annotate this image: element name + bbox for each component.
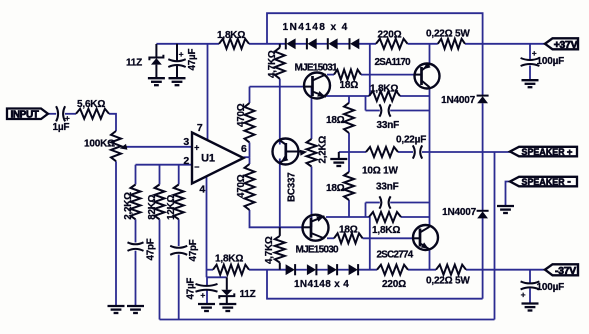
resistor R8 470R lower [245,164,255,210]
wire zobel line [339,151,366,153]
wire +37 100uF stub bottom [529,65,531,79]
svg-text:2,2KΩ: 2,2KΩ [317,136,328,164]
net flag +37V [545,38,578,51]
wire pin4 supply column [206,177,208,278]
diode D1 1N4148 [286,38,296,49]
resistor R1 5,6K [76,109,109,119]
transistor Q4 MJE15030 [303,215,329,241]
svg-text:18Ω: 18Ω [339,224,358,235]
wire output column [429,88,431,225]
wire Q1 emitter line [326,95,369,97]
wire Q5 emitter to rail [429,250,431,270]
resistor R22 82K divider [155,185,165,220]
svg-text:100µF: 100µF [537,282,565,293]
net flag -37V [545,264,578,277]
wire divider top drops [136,165,179,185]
wire 1K8b to output column [401,216,430,218]
resistor R23 12K divider [174,185,184,220]
label R14 value [326,183,345,194]
potentiometer R2 100K [111,131,127,161]
resistor R10 1,8K upper [369,91,400,101]
svg-text:18Ω: 18Ω [340,80,359,91]
wire feedback riser [494,152,496,320]
svg-text:47pF: 47pF [146,238,157,260]
wire Q4 collector line [327,237,334,239]
resistor R11 18R vertical upper [344,103,354,133]
svg-text:U1: U1 [201,153,215,165]
svg-text:1N4007: 1N4007 [441,95,475,106]
svg-text:−: − [194,162,199,172]
wire pin6 to 470R bottom [249,157,251,164]
wire +rail to diode D5 [482,44,484,96]
wire D6 to bottom box [482,218,484,299]
label C9 value [146,238,157,260]
label Q3 [286,172,297,202]
svg-text:2SC2774: 2SC2774 [377,250,414,261]
svg-text:33nF: 33nF [377,120,400,131]
wire 18R2 to output node [348,133,350,172]
svg-text:4,7KΩ: 4,7KΩ [264,236,275,264]
wire 18R4 to lower base node [363,237,414,239]
wire rail to Q2 emitter [429,44,431,64]
wire Q4 emitter line [326,216,369,218]
wire C47pF to ground [135,251,137,306]
label R20 value [426,276,470,287]
resistor R5 220R [376,39,408,49]
capacitor C3 100uF [521,48,540,66]
label R16 value [339,224,358,235]
ground for Z1 [148,78,165,85]
ground for C3 [522,80,539,87]
pin 6 label [241,143,247,155]
svg-text:100µF: 100µF [537,56,565,67]
wire +37 100uF stub top [529,44,531,60]
label Q4 [296,244,340,255]
svg-text:+37V: +37V [554,40,578,51]
label bottom diode string [294,279,349,290]
wire 470R top column [249,87,251,103]
svg-text:7: 7 [197,122,203,134]
svg-text:1N4148 x 4: 1N4148 x 4 [283,22,349,33]
label Q2 [375,57,412,68]
ground for Z2 [219,304,236,311]
diode D2 1N4148 [307,38,317,49]
svg-text:1,8KΩ: 1,8KΩ [370,84,398,95]
wire between bottom bias diodes [295,269,349,271]
svg-text:6: 6 [241,143,247,155]
svg-text:1,8KΩ: 1,8KΩ [215,254,243,265]
label R18 value [215,254,243,265]
wire 47uF2 to ground [206,290,208,304]
svg-text:220Ω: 220Ω [378,30,402,41]
wire top rail mid section [249,43,286,45]
capacitor C6 33nF lower [379,196,390,208]
ground for C8 [522,304,539,311]
label R10 value [370,84,398,95]
wire pot bottom to ground [115,161,117,305]
svg-text:1,8KΩ: 1,8KΩ [217,30,245,41]
svg-text:11Z: 11Z [240,289,256,300]
svg-text:4,7KΩ: 4,7KΩ [267,50,278,78]
wire C47pF2 to feedback line [178,255,180,320]
svg-text:1µF: 1µF [53,122,70,133]
wire 33nF branch drop [365,96,367,111]
svg-text:0,22µF: 0,22µF [396,135,426,146]
diode D6 1N4007 [477,211,489,219]
svg-text:2: 2 [183,155,189,167]
label D5 [441,95,475,106]
label R7 value [236,103,247,127]
wire input to cap C1 [48,113,57,115]
svg-text:+: + [194,143,199,153]
wire op-amp output node [244,156,250,158]
resistor R18 1,8K bottom left [213,265,249,275]
label R5 value [378,30,402,41]
wire feedback bottom run [160,319,495,321]
label top diode string [283,22,349,33]
wire 33nF2 right lead [390,202,429,204]
svg-text:12KΩ: 12KΩ [166,194,177,219]
diode D7 1N4148 [286,264,296,275]
svg-text:18Ω: 18Ω [326,115,345,126]
transistor Q5 2SC2774 [413,225,438,250]
svg-text:+: + [567,147,573,158]
svg-text:220Ω: 220Ω [382,279,406,290]
label R13 value [362,166,398,177]
wire Q1 base to pot top [311,87,313,139]
wire 18R2 column top [348,96,350,103]
capacitor C7 47uF lower [196,284,218,300]
wire C0u22 to speaker flag [422,151,511,153]
transistor Q1 MJE15031 [304,73,330,99]
resistor R16 18R [334,233,363,243]
label R17 value [264,236,275,264]
capacitor C5 0,22uF [413,145,422,158]
ground for speaker- [497,206,514,213]
wire top rail diodes to 220R [359,43,376,45]
label C3 value [537,56,565,67]
wire bottom rail 1K8 to box [249,269,286,271]
input terminal flag [7,109,48,121]
svg-text:0,22Ω 5W: 0,22Ω 5W [426,29,470,40]
wire lower base node to rail [369,217,371,270]
label R15 value [372,225,400,236]
label C6 value [376,181,399,192]
label R2 value [84,139,115,150]
wire 33nF2 left lead [366,202,380,204]
capacitor C4 33nF [379,104,390,116]
resistor R20 0,22R 5W lower [436,265,466,275]
label C5 value [396,135,426,146]
label R22 value [147,194,158,219]
zener diode Z2 11Z [219,277,234,304]
wire -37 100uF stub top [529,270,531,283]
label R8 value [236,174,247,198]
svg-text:470Ω: 470Ω [236,103,247,127]
svg-text:MJE15031: MJE15031 [295,63,339,74]
wire bottom rail diodes to 220R [358,269,377,271]
svg-text:18Ω: 18Ω [326,183,345,194]
label R11 value [326,115,345,126]
wire 33nF left lead [366,110,380,112]
resistor R6 0,22R 5W [438,39,465,49]
net flag SPEAKER - [510,176,577,188]
wire 1K8 to output column [400,95,430,97]
wire pin3 to pot wiper [127,146,192,148]
wire 33nF2 branch drop [365,203,367,218]
diode D3 1N4148 [328,38,338,49]
capacitor C1 1uF [56,106,70,123]
wire 33nF right lead [390,110,429,112]
wire 470R bottom to base line [250,210,304,227]
label R4 value [267,50,278,78]
diode D8 1N4148 [307,264,317,275]
net flag SPEAKER + [510,147,577,158]
wire bottom rail 0R22 to -37V flag [466,269,546,271]
diode D5 1N4007 [477,96,489,104]
resistor R14 18R vertical lower [344,172,354,200]
label R21 value [123,192,134,220]
wire 47uF2 stub [206,277,208,286]
wire 12K to C47pF2 [178,219,180,246]
svg-text:0,22Ω 5W: 0,22Ω 5W [426,276,470,287]
wire -37 100uF stub bottom [529,288,531,303]
op-amp minus mark [194,162,199,172]
label C10 value [188,239,199,261]
label R6 value [426,29,470,40]
svg-text:47µF: 47µF [187,49,198,71]
label D6 [442,207,476,218]
diode D10 1N4148 [349,264,359,275]
label C1 value [53,122,70,133]
transistor Q2 2SA1170 [415,63,440,89]
diode D4 1N4148 [350,38,360,49]
wire pin2 to divider network [136,164,193,166]
wire upper base line [250,86,305,88]
resistor R3 1,8K [219,39,249,49]
svg-text:11Z: 11Z [126,57,142,68]
wire 82K column down [159,219,161,319]
wire BC337 emitter down [279,159,281,228]
label Z1 value [126,57,142,68]
svg-text:1,8KΩ: 1,8KΩ [372,225,400,236]
ground input pot [108,306,125,313]
resistor R17 4,7K lower [275,227,285,269]
label C2 value [187,49,198,71]
wire Q1 collector line [327,74,334,76]
svg-text:2SA1170: 2SA1170 [375,57,412,68]
wire bottom rail 220R to 0R22 [408,269,436,271]
label C8 value [537,282,565,293]
svg-text:470Ω: 470Ω [236,174,247,198]
wire speaker line to diode D6 [482,152,484,211]
svg-text:+: + [179,49,184,59]
capacitor C9 47pF [128,242,144,251]
svg-text:+: + [521,290,526,300]
ground for C7 [198,304,215,311]
svg-text:2,2KΩ: 2,2KΩ [123,192,134,220]
label R19 value [382,279,406,290]
label R9 value [340,80,359,91]
transistor Q3 BC337 [273,139,304,165]
label C7 value [186,278,197,300]
svg-text:47pF: 47pF [188,239,199,261]
wire pot bottom to Q4 base [311,167,313,228]
op-amp U1 [192,133,244,184]
svg-text:100KΩ: 100KΩ [84,139,115,150]
wire top rail left section [156,43,219,45]
pin 2 label [183,155,189,167]
pin 7 label [197,122,203,134]
capacitor C8 100uF lower [521,281,540,299]
resistor R7 470R upper [245,103,255,143]
svg-text:SPEAKER: SPEAKER [522,177,566,187]
pin 3 label [183,136,189,148]
op-amp plus mark [194,143,199,153]
label R23 value [166,194,177,219]
label R1 value [77,99,105,110]
label R12 value [317,136,328,164]
label R3 value [217,30,245,41]
wire top bridge box [267,13,483,44]
wire R1 to pot corner [109,114,116,131]
svg-text:BC337: BC337 [286,172,297,202]
wire C1 to R1 [65,113,76,115]
pin 4 label [199,184,205,196]
svg-text:3: 3 [183,136,189,148]
svg-text:47µF: 47µF [186,278,197,300]
label Q5 [377,250,414,261]
diode D9 1N4148 [328,264,338,275]
svg-text:4: 4 [199,184,205,196]
svg-text:SPEAKER: SPEAKER [522,147,566,157]
wire bottom bridge box [267,270,483,299]
resistor R21 2,2K divider [131,185,141,220]
resistor R15 1,8K lower [369,212,401,222]
wire rail to upper base node [369,44,371,96]
label Q1 [295,63,339,74]
wire top rail 220R to 0R22 [408,43,438,45]
svg-text:INPUT: INPUT [10,110,38,121]
label C4 value [377,120,400,131]
wire 18R3 to emitter line [348,200,350,217]
wire 4K7 to BC337 collector [279,79,281,145]
svg-text:33nF: 33nF [376,181,399,192]
wire 2K2 to C47pF [135,219,137,242]
capacitor C2 47uF [168,44,185,78]
wire top rail 0R22 to +37V flag [465,43,546,45]
wire pin4 node branch [207,276,227,278]
svg-text:1N4007: 1N4007 [442,207,476,218]
zener diode Z1 11Z [149,44,163,78]
resistor R4 4,7K [275,44,285,79]
potentiometer R12 2,2K [300,139,317,167]
wire bottom rail left [207,269,214,271]
ground for C2 [169,78,186,85]
svg-text:5,6KΩ: 5,6KΩ [77,99,105,110]
wire D5 to speaker line [482,103,484,151]
ground mid zobel [330,152,347,166]
wire 10R to C0u22 [398,151,413,153]
wire pin7 supply column [207,44,209,140]
svg-text:10Ω 1W: 10Ω 1W [362,166,398,177]
wire between top bias diodes [295,43,349,45]
resistor R13 10R 1W [366,147,398,157]
svg-text:-37V: -37V [555,266,576,277]
label Z2 value [240,289,256,300]
resistor R19 220R lower [377,265,408,275]
wire speaker- drop [506,182,511,206]
svg-text:MJE15030: MJE15030 [296,244,340,255]
svg-text:1N4148 x 4: 1N4148 x 4 [294,279,349,290]
svg-text:+: + [200,290,205,300]
capacitor C10 47pF [170,246,187,255]
wire 18R1 to base node [361,74,415,76]
ground divider [127,306,144,313]
svg-text:-: - [567,176,571,188]
svg-text:82KΩ: 82KΩ [147,194,158,219]
resistor R9 18R [334,70,361,80]
wire 470R top to pin6 [249,143,251,158]
